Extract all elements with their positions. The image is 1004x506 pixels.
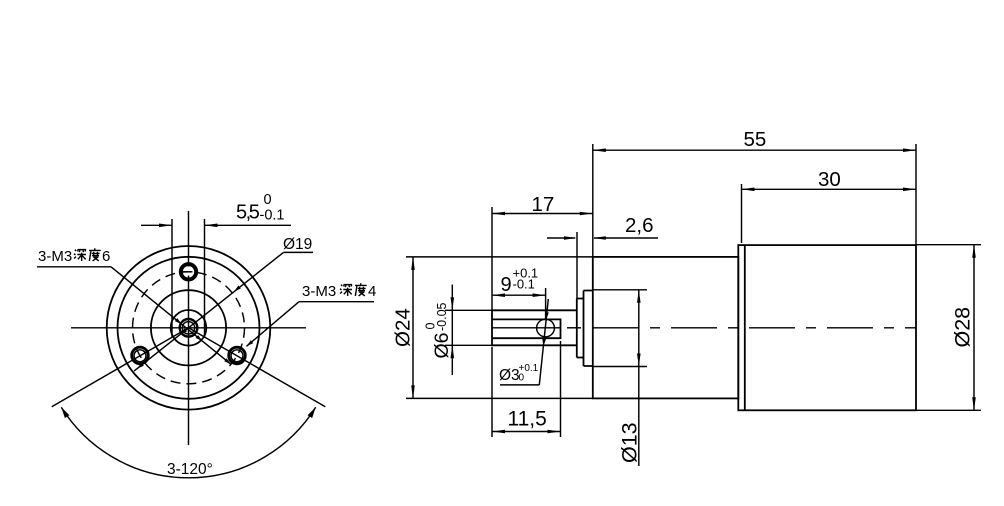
dimension 2,6 bbox=[547, 214, 658, 299]
svg-text:30: 30 bbox=[818, 168, 841, 191]
dimension 11,5 bbox=[492, 341, 561, 437]
svg-text:Ø3: Ø3 bbox=[499, 367, 520, 384]
boss step 1 bbox=[577, 299, 584, 358]
svg-text:Ø24: Ø24 bbox=[392, 308, 415, 347]
dimension Ø6 bbox=[424, 285, 493, 376]
svg-text:0: 0 bbox=[264, 192, 272, 208]
svg-text:9: 9 bbox=[501, 274, 512, 296]
svg-text:3-M3: 3-M3 bbox=[302, 283, 336, 300]
lower-right mounting hole M3 bbox=[229, 347, 246, 364]
lower-left mounting hole M3 bbox=[132, 347, 149, 364]
angle arc 3-120 bbox=[59, 406, 318, 478]
svg-text:3-M3: 3-M3 bbox=[38, 248, 72, 265]
svg-text:Ø13: Ø13 bbox=[618, 422, 642, 463]
svg-text:17: 17 bbox=[532, 193, 555, 216]
dimension 17 bbox=[492, 193, 593, 310]
svg-text:Ø28: Ø28 bbox=[951, 307, 975, 348]
leader Ø3 bbox=[499, 299, 549, 385]
circle Ø13 bbox=[151, 290, 226, 365]
svg-text:4: 4 bbox=[368, 283, 376, 300]
center hole ring bbox=[180, 319, 198, 337]
dimension 30 bbox=[742, 168, 917, 243]
radial centerline lower-right bbox=[189, 328, 326, 407]
svg-text:3-120°: 3-120° bbox=[167, 461, 213, 478]
svg-text:11,5: 11,5 bbox=[508, 408, 547, 431]
svg-text:55: 55 bbox=[744, 128, 767, 151]
leader 3-M3 depth 4 bbox=[245, 302, 374, 348]
leader 3-M3 depth 6 bbox=[37, 267, 232, 366]
shaft body Ø6 bbox=[492, 310, 577, 345]
svg-text:+0.1: +0.1 bbox=[519, 363, 539, 374]
dimension text 5,5 0/-0.1 bbox=[236, 192, 285, 224]
dimension 5,5 extension lines (shaft flats) bbox=[172, 219, 205, 338]
svg-text:6: 6 bbox=[102, 248, 110, 265]
shaft circle Ø6 bbox=[171, 310, 207, 346]
radial centerline lower-left bbox=[52, 328, 189, 407]
svg-text:Ø19: Ø19 bbox=[283, 236, 312, 253]
svg-text:-0.1: -0.1 bbox=[260, 208, 285, 224]
label Ø19 bbox=[283, 236, 312, 253]
leader Ø19 diagonal line bbox=[134, 252, 313, 371]
svg-text:-0.1: -0.1 bbox=[513, 277, 535, 292]
top mounting hole M3 bbox=[180, 264, 197, 281]
svg-text:-0.05: -0.05 bbox=[435, 302, 449, 331]
svg-text:5,5: 5,5 bbox=[236, 202, 260, 224]
horizontal centerline bbox=[71, 327, 306, 329]
vertical centerline bbox=[188, 211, 190, 445]
gearbox body Ø24 bbox=[593, 257, 739, 399]
svg-text:Ø6: Ø6 bbox=[431, 332, 453, 358]
label 3-M3 depth 4 bbox=[302, 283, 376, 300]
dimension Ø13 bbox=[593, 290, 647, 466]
dimension Ø28 bbox=[916, 245, 981, 411]
motor body Ø28 bbox=[738, 245, 916, 411]
bolt circle Ø19 (dashed) bbox=[133, 272, 245, 384]
dimension 9 bbox=[492, 266, 546, 320]
shaft flat/slot lines bbox=[492, 319, 561, 338]
svg-text:2,6: 2,6 bbox=[625, 214, 654, 237]
main centerline dash-dot bbox=[492, 327, 916, 329]
label 3-120deg bbox=[167, 461, 213, 478]
gearbox circle Ø24 bbox=[118, 257, 260, 399]
cross hole Ø3 circle bbox=[537, 319, 555, 337]
dimension 5,5 line and arrows bbox=[141, 224, 291, 228]
dimension 55 bbox=[593, 128, 916, 257]
boss step 2 (Ø13) bbox=[584, 291, 593, 367]
flange outer circle (motor Ø28) bbox=[107, 246, 271, 410]
dimension Ø24 bbox=[392, 257, 593, 399]
svg-text:0: 0 bbox=[519, 373, 525, 384]
label 3-M3 depth 6 bbox=[38, 248, 110, 265]
